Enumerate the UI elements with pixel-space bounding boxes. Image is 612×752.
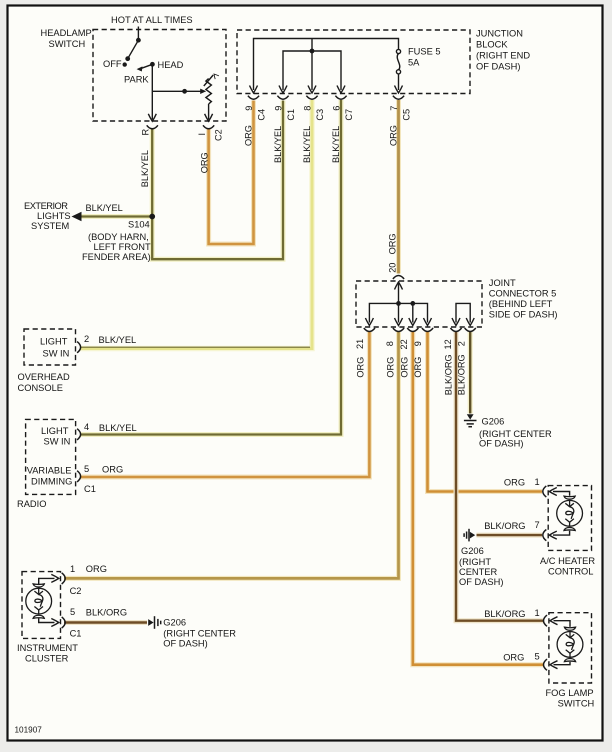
svg-text:EXTERIOR: EXTERIOR xyxy=(24,201,68,211)
wire ORG joint connector pin 21 to radio pin 5 xyxy=(80,332,369,477)
svg-text:DIMMING: DIMMING xyxy=(31,477,72,487)
svg-text:OF DASH): OF DASH) xyxy=(459,577,503,587)
svg-text:SWITCH: SWITCH xyxy=(49,39,86,49)
svg-text:C1: C1 xyxy=(70,629,82,639)
pin 9 terminal arc xyxy=(422,328,433,332)
wire bus to pin C3 xyxy=(311,51,313,90)
internal U wire pins 12 and 2 xyxy=(456,303,470,322)
svg-text:ORG: ORG xyxy=(199,152,209,173)
svg-text:JOINT: JOINT xyxy=(489,278,516,288)
arrow into pin 8 xyxy=(395,318,403,326)
wire BLK/ORG joint connector pin 12 to fog lamp switch pin 1 xyxy=(456,332,544,621)
pin 5 terminal arc xyxy=(62,617,65,628)
arrow into pin C5 xyxy=(395,86,403,94)
wiper arrowhead into rheostat xyxy=(200,89,206,94)
svg-text:BLK/YEL: BLK/YEL xyxy=(302,126,312,163)
svg-text:101907: 101907 xyxy=(15,726,43,735)
svg-text:R: R xyxy=(140,129,150,136)
svg-text:CLUSTER: CLUSTER xyxy=(25,654,69,664)
wire ORG junction block C5 to joint connector pin 20 xyxy=(396,100,401,274)
svg-text:22: 22 xyxy=(399,339,409,349)
svg-text:ORG: ORG xyxy=(504,478,525,488)
internal wire lamp to pin 5 xyxy=(554,662,571,665)
svg-text:C1: C1 xyxy=(286,109,296,121)
pin R terminal arc xyxy=(147,125,158,129)
fog lamp switch lamp xyxy=(557,627,583,661)
ground G206 at A/C pin 7 xyxy=(464,529,475,542)
HEAD contact dot xyxy=(150,62,155,67)
junction dot on wiper branch xyxy=(182,89,187,94)
joint connector internal wire pin20 to bus xyxy=(398,282,400,303)
svg-text:CENTER: CENTER xyxy=(459,567,498,577)
svg-text:ORG: ORG xyxy=(386,357,396,378)
arrow into pin 2 xyxy=(466,318,474,326)
pin 5 terminal arc xyxy=(544,659,548,670)
svg-text:6: 6 xyxy=(331,106,341,111)
radio pin 5 terminal arc xyxy=(77,471,81,482)
wire ORG joint connector pin 22 to fog lamp switch pin 5 xyxy=(413,332,544,665)
svg-text:OF DASH): OF DASH) xyxy=(476,62,520,72)
arrow to exterior lights system xyxy=(72,212,82,221)
svg-text:G206: G206 xyxy=(461,546,484,556)
pin C5 terminal arc xyxy=(393,96,404,100)
overhead console light sw in box xyxy=(24,329,76,365)
svg-text:LIGHT: LIGHT xyxy=(41,426,69,436)
fog lamp switch box xyxy=(549,613,592,683)
svg-text:ORG: ORG xyxy=(389,125,399,146)
internal drop to pin 22 xyxy=(412,303,414,322)
svg-text:1: 1 xyxy=(70,564,75,574)
svg-text:VARIABLE: VARIABLE xyxy=(27,466,72,476)
svg-text:C2: C2 xyxy=(70,586,82,596)
arrow into pin I xyxy=(205,114,213,122)
svg-text:5: 5 xyxy=(535,652,540,662)
svg-text:BLK/YEL: BLK/YEL xyxy=(99,423,137,433)
OFF contact dot xyxy=(123,62,127,66)
svg-text:BLK/YEL: BLK/YEL xyxy=(331,126,341,163)
arrow into pin C7 xyxy=(337,86,345,94)
wire ORG joint connector pin 9 to A/C heater control pin 1 xyxy=(428,332,543,492)
radio pin 4 terminal arc xyxy=(77,429,81,440)
svg-text:BLK/ORG: BLK/ORG xyxy=(484,521,525,531)
pin 20 terminal arc xyxy=(393,276,404,280)
pin 7 terminal arc xyxy=(543,530,547,541)
svg-text:8: 8 xyxy=(302,106,312,111)
svg-text:C1: C1 xyxy=(84,484,96,494)
wire BLK/YEL junction block C7 to radio pin 4 xyxy=(80,100,341,435)
svg-text:9: 9 xyxy=(244,106,254,111)
svg-text:HEADLAMP: HEADLAMP xyxy=(41,28,92,38)
arrow into fog pin 5 xyxy=(550,661,558,669)
wire BLK/YEL junction block C3 to overhead console pin 2 (pale yellow) xyxy=(80,100,312,349)
junction dot bus at pin 22 xyxy=(410,301,415,306)
svg-text:20: 20 xyxy=(387,263,397,273)
wire BLK/ORG ground G206 to A/C heater control pin 7 xyxy=(477,533,543,538)
ground G206 at instrument cluster pin 5 xyxy=(148,616,161,629)
svg-text:LIGHT: LIGHT xyxy=(40,337,68,347)
blade end dot xyxy=(125,56,130,61)
svg-text:21: 21 xyxy=(355,339,365,349)
junction dot switch pivot xyxy=(136,38,141,43)
svg-text:1: 1 xyxy=(535,608,540,618)
svg-text:G206: G206 xyxy=(482,417,505,427)
wire ORG joint connector pin 8 to instrument cluster pin 1 xyxy=(64,332,399,578)
svg-text:C7: C7 xyxy=(344,109,354,121)
svg-text:CONTROL: CONTROL xyxy=(548,567,593,577)
svg-text:5: 5 xyxy=(84,464,89,474)
svg-text:A/C HEATER: A/C HEATER xyxy=(540,556,595,566)
svg-text:S104: S104 xyxy=(128,220,150,230)
svg-text:9: 9 xyxy=(273,106,283,111)
A/C heater control lamp xyxy=(557,496,583,530)
ground G206 below joint connector pin 2 xyxy=(464,414,477,427)
PARK contact dot xyxy=(137,66,143,71)
arrow into pin 22 xyxy=(409,318,417,326)
internal wire pin 1 to lamp xyxy=(554,621,571,627)
wiper branch wire xyxy=(152,90,202,92)
svg-text:ORG: ORG xyxy=(503,653,524,663)
arrow into A/C pin 7 xyxy=(549,531,557,539)
fuse 5 xyxy=(396,49,400,53)
arrow into pin 21 xyxy=(365,318,373,326)
svg-text:I: I xyxy=(197,133,207,136)
rheostat resistor (variable dimming) xyxy=(206,79,212,105)
instrument cluster lamp xyxy=(26,584,52,618)
junction block second bus wire xyxy=(283,51,341,90)
svg-text:INSTRUMENT: INSTRUMENT xyxy=(17,643,78,653)
internal wire pin 1 to lamp xyxy=(553,492,570,496)
arrow into pin 12 xyxy=(452,318,460,326)
svg-text:SYSTEM: SYSTEM xyxy=(31,221,69,231)
wire ORG headlamp I/C2 to junction block C4 xyxy=(209,101,254,245)
svg-text:7: 7 xyxy=(389,106,399,111)
wire from HOT feed into switch xyxy=(137,27,139,39)
internal wire lamp to pin 5 xyxy=(39,618,55,622)
svg-text:HOT AT ALL TIMES: HOT AT ALL TIMES xyxy=(111,15,193,25)
headlamp switch box xyxy=(93,30,226,122)
junction dot bus at pin 8 xyxy=(396,301,401,306)
arrow into A/C pin 1 xyxy=(549,488,557,496)
svg-text:FENDER AREA): FENDER AREA) xyxy=(82,252,151,262)
arrow into pin C1 xyxy=(279,86,287,94)
svg-text:BLK/YEL: BLK/YEL xyxy=(140,150,150,187)
joint connector 5 box xyxy=(356,281,482,327)
arrow into pin 20 (upward inside box) xyxy=(395,282,403,290)
svg-text:ORG: ORG xyxy=(413,357,423,378)
svg-text:ORG: ORG xyxy=(388,233,398,254)
svg-text:2: 2 xyxy=(84,334,89,344)
splice S104 dot xyxy=(149,214,155,220)
svg-text:SW IN: SW IN xyxy=(44,437,71,447)
arrow into fog pin 1 xyxy=(550,617,558,625)
pin 8 terminal arc xyxy=(393,328,404,332)
svg-text:4: 4 xyxy=(84,422,89,432)
instrument cluster box xyxy=(22,572,61,639)
svg-text:BLOCK: BLOCK xyxy=(476,40,508,50)
svg-text:BLK/YEL: BLK/YEL xyxy=(99,335,137,345)
svg-text:OF DASH): OF DASH) xyxy=(479,439,523,449)
svg-text:7: 7 xyxy=(535,520,540,530)
arrow into instrument pin 5 xyxy=(51,619,59,627)
svg-text:BLK/ORG: BLK/ORG xyxy=(86,608,127,618)
arrow into pin C3 xyxy=(308,86,316,94)
svg-text:1: 1 xyxy=(535,477,540,487)
pin 22 terminal arc xyxy=(407,328,418,332)
svg-text:9: 9 xyxy=(413,341,423,346)
pin 21 terminal arc xyxy=(364,328,375,332)
pin 2 terminal arc xyxy=(77,342,81,353)
junction block main bus wire xyxy=(254,39,399,91)
svg-text:CONNECTOR 5: CONNECTOR 5 xyxy=(489,288,557,298)
svg-text:JUNCTION: JUNCTION xyxy=(476,29,523,39)
svg-text:(RIGHT END: (RIGHT END xyxy=(476,51,530,61)
pin 2 terminal arc xyxy=(465,328,476,332)
svg-text:FUSE 5: FUSE 5 xyxy=(408,47,441,57)
svg-text:C3: C3 xyxy=(315,109,325,121)
pin C3 terminal arc xyxy=(306,96,317,100)
svg-text:(RIGHT CENTER: (RIGHT CENTER xyxy=(163,629,236,639)
svg-text:OFF: OFF xyxy=(103,59,122,69)
svg-text:G206: G206 xyxy=(163,618,186,628)
junction dot second bus xyxy=(310,49,315,54)
svg-text:BLK/YEL: BLK/YEL xyxy=(273,126,283,163)
svg-text:FOG LAMP: FOG LAMP xyxy=(546,688,594,698)
arrow into instrument pin 1 xyxy=(51,574,59,582)
pin 1 terminal arc xyxy=(543,486,547,497)
pin I terminal arc xyxy=(203,125,214,129)
svg-text:(BODY HARN,: (BODY HARN, xyxy=(88,232,149,242)
svg-text:SWITCH: SWITCH xyxy=(558,699,595,709)
svg-text:C2: C2 xyxy=(213,129,223,141)
pin C7 terminal arc xyxy=(335,96,346,100)
svg-text:LEFT FRONT: LEFT FRONT xyxy=(94,242,151,252)
svg-text:BLK/ORG: BLK/ORG xyxy=(484,609,525,619)
wire BLK/YEL S104 to exterior lights arrow xyxy=(81,214,152,219)
pin 1 terminal arc xyxy=(62,573,65,584)
svg-text:RADIO: RADIO xyxy=(17,499,46,509)
wire BLK/ORG joint connector pin 2 to ground G206 xyxy=(468,332,473,414)
pin 1 terminal arc xyxy=(544,615,548,626)
junction block box xyxy=(237,30,470,94)
svg-text:PARK: PARK xyxy=(124,75,149,85)
rheostat adjustment arrow xyxy=(204,75,213,86)
internal wire lamp to pin 1 xyxy=(39,578,55,584)
svg-text:OVERHEAD: OVERHEAD xyxy=(18,372,70,382)
pin 12 terminal arc xyxy=(450,328,461,332)
pin C1 terminal arc xyxy=(277,96,288,100)
svg-text:ORG: ORG xyxy=(86,564,107,574)
A/C heater control box xyxy=(548,486,591,551)
svg-text:ORG: ORG xyxy=(244,125,254,146)
svg-text:(RIGHT: (RIGHT xyxy=(459,557,491,567)
junction block bus tap wire xyxy=(311,39,313,52)
svg-text:(RIGHT CENTER: (RIGHT CENTER xyxy=(479,429,552,439)
switch blade to OFF xyxy=(128,40,139,59)
svg-text:ORG: ORG xyxy=(102,465,123,475)
wire rheostat to pin I xyxy=(208,104,210,120)
wire BLK/YEL headlamp R through S104 to junction block C1 xyxy=(152,101,283,260)
svg-text:BLK/YEL: BLK/YEL xyxy=(86,203,123,213)
svg-text:LIGHTS: LIGHTS xyxy=(37,211,71,221)
svg-text:ORG: ORG xyxy=(356,357,366,378)
svg-text:2: 2 xyxy=(457,341,467,346)
wire BLK/ORG instrument cluster pin 5 to ground G206 xyxy=(64,620,147,625)
svg-text:ORG: ORG xyxy=(399,357,409,378)
arrow into pin 9 xyxy=(424,318,432,326)
svg-text:HEAD: HEAD xyxy=(158,60,184,70)
wire HEAD to pin R xyxy=(151,64,153,119)
arrow into pin R xyxy=(148,114,156,122)
svg-text:12: 12 xyxy=(443,339,453,349)
PARK blade xyxy=(140,64,152,68)
svg-text:BLK/ORG: BLK/ORG xyxy=(457,354,467,395)
svg-text:(BEHIND LEFT: (BEHIND LEFT xyxy=(489,299,553,309)
svg-text:BLK/ORG: BLK/ORG xyxy=(443,354,453,395)
svg-text:C5: C5 xyxy=(401,109,411,121)
svg-text:CONSOLE: CONSOLE xyxy=(18,383,63,393)
svg-text:C4: C4 xyxy=(256,109,266,121)
svg-text:8: 8 xyxy=(385,341,395,346)
svg-text:SIDE OF DASH): SIDE OF DASH) xyxy=(489,309,558,319)
radio box xyxy=(26,419,76,494)
pin C4 terminal arc xyxy=(248,96,259,100)
internal wire lamp to pin 7 xyxy=(553,531,570,535)
svg-text:SW IN: SW IN xyxy=(43,349,70,359)
joint connector internal bus xyxy=(369,303,427,322)
svg-text:5: 5 xyxy=(70,607,75,617)
svg-text:5A: 5A xyxy=(408,58,420,68)
arrow into pin C4 xyxy=(250,86,258,94)
internal drop to pin 8 xyxy=(398,303,400,322)
svg-text:OF DASH): OF DASH) xyxy=(163,639,207,649)
